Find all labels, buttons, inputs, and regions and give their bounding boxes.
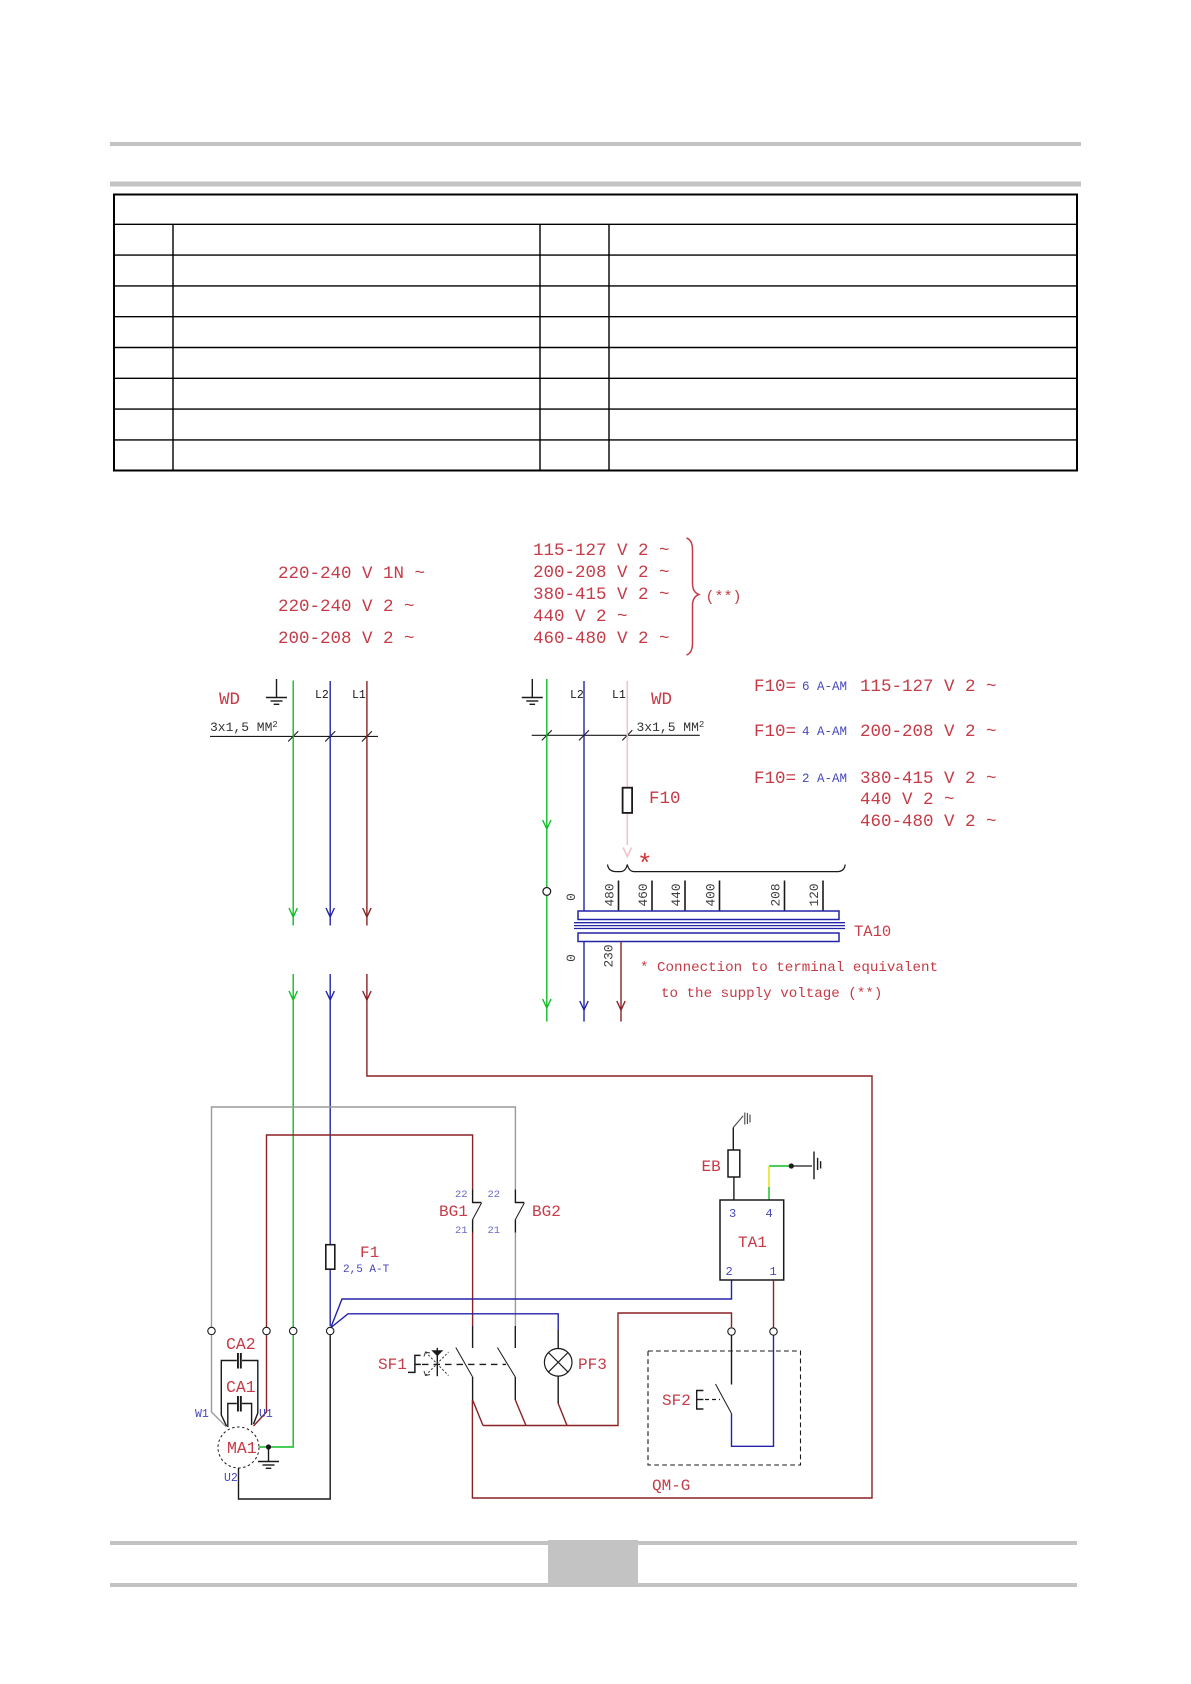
svg-text:L2: L2 xyxy=(315,689,329,702)
svg-text:MA1: MA1 xyxy=(227,1439,257,1458)
chassis ground symbol (rotated) xyxy=(814,1152,821,1180)
motor frame ground xyxy=(258,1447,279,1468)
svg-text:200-208 V 2 ~: 200-208 V 2 ~ xyxy=(860,722,997,742)
fuse F10 xyxy=(623,788,633,813)
svg-text:EB: EB xyxy=(702,1158,721,1176)
svg-text:PF3: PF3 xyxy=(578,1356,607,1374)
capacitor CA1 loop xyxy=(228,1404,252,1428)
terminal circles xyxy=(208,1327,777,1335)
svg-text:F10=: F10= xyxy=(754,677,796,697)
svg-text:3x1,5 MM2: 3x1,5 MM2 xyxy=(210,720,278,735)
svg-text:220-240 V 1N ~: 220-240 V 1N ~ xyxy=(278,564,425,584)
svg-text:21: 21 xyxy=(488,1225,501,1237)
svg-text:QM-G: QM-G xyxy=(652,1477,690,1495)
gray wire to motor W1 xyxy=(212,1335,227,1427)
svg-text:3: 3 xyxy=(729,1207,736,1221)
svg-text:3x1,5 MM2: 3x1,5 MM2 xyxy=(637,720,705,735)
cable line right group xyxy=(532,730,700,740)
svg-text:BG2: BG2 xyxy=(532,1203,561,1221)
lead to chassis ground right of TA1 xyxy=(791,1165,812,1167)
svg-text:460-480 V 2 ~: 460-480 V 2 ~ xyxy=(860,812,997,832)
SF1 selector symbol (crossed arrows) xyxy=(424,1348,449,1376)
svg-text:115-127 V 2 ~: 115-127 V 2 ~ xyxy=(860,677,997,697)
svg-text:208: 208 xyxy=(769,883,784,906)
voltage list right column xyxy=(533,541,670,649)
yellow-green earth wire at TA1 pin 4 xyxy=(769,1165,791,1167)
SF1 manual operator xyxy=(408,1355,421,1372)
transformer TA10 core xyxy=(574,923,845,929)
cable line left group xyxy=(210,731,378,741)
wire L2 blue left segment 1 xyxy=(326,681,334,926)
SF2 operator E xyxy=(697,1391,704,1410)
wire L1 pink through F10 xyxy=(623,681,631,857)
dark red wiring loop (to BG1 / U1) xyxy=(267,1135,473,1327)
svg-text:CA1: CA1 xyxy=(226,1378,256,1397)
svg-text:22: 22 xyxy=(455,1189,468,1201)
svg-text:120: 120 xyxy=(807,883,822,906)
secondary labels 0 and 230 xyxy=(564,944,617,967)
EB lead bottom to TA1 pin 3 xyxy=(733,1177,735,1200)
voltage list left column xyxy=(278,564,425,649)
SF1 linkage dashed line xyxy=(422,1363,506,1365)
ground (earth) symbol right group xyxy=(522,679,543,704)
wire L1 dark red left segment 2, turns right xyxy=(363,974,872,1498)
black return wire from terminal to U2 xyxy=(239,1335,331,1499)
svg-text:F10: F10 xyxy=(649,789,681,809)
svg-text:200-208 V 2 ~: 200-208 V 2 ~ xyxy=(533,563,670,583)
svg-text:220-240 V 2 ~: 220-240 V 2 ~ xyxy=(278,597,415,617)
transformer TA10 taps xyxy=(619,881,824,912)
svg-text:WD: WD xyxy=(651,690,672,710)
wire L2 blue right into transformer xyxy=(583,681,585,911)
blue rail 1 (to TA1 pin 2) xyxy=(331,1280,732,1327)
svg-text:1: 1 xyxy=(770,1265,777,1279)
contact BG1 xyxy=(473,1190,482,1327)
svg-text:TA1: TA1 xyxy=(738,1234,767,1252)
svg-text:2 A-AM: 2 A-AM xyxy=(802,772,847,786)
EB lead top xyxy=(732,1128,734,1151)
svg-text:230: 230 xyxy=(602,944,617,967)
svg-text:BG1: BG1 xyxy=(439,1203,468,1221)
svg-text:TA10: TA10 xyxy=(854,923,891,941)
SF1 contact left xyxy=(456,1326,483,1426)
contact BG2 xyxy=(515,1190,524,1327)
junction dot xyxy=(789,1163,794,1168)
dashed enclosure QM-G xyxy=(648,1351,801,1465)
dark red wire to motor U1 xyxy=(254,1335,267,1426)
svg-text:440: 440 xyxy=(669,883,684,906)
secondary 0 wire blue with arrow xyxy=(580,942,588,1022)
svg-text:4: 4 xyxy=(766,1207,773,1221)
svg-text:380-415 V 2 ~: 380-415 V 2 ~ xyxy=(860,769,997,789)
SF2 linkage dashes xyxy=(705,1399,720,1401)
wire PE green right (long) with arrows and node circle xyxy=(543,679,551,1022)
svg-text:2: 2 xyxy=(726,1265,733,1279)
svg-text:F10=: F10= xyxy=(754,722,796,742)
svg-text:460: 460 xyxy=(636,883,651,906)
svg-text:21: 21 xyxy=(455,1225,468,1237)
svg-text:L1: L1 xyxy=(352,689,366,702)
TA1 pin numbers xyxy=(726,1207,777,1279)
SF1 contact right xyxy=(497,1326,526,1426)
transformer TA1 box xyxy=(720,1200,784,1280)
svg-text:L1: L1 xyxy=(612,689,626,702)
junction dot on green xyxy=(266,1444,271,1449)
lamp PF3 xyxy=(544,1349,572,1377)
ground (earth) symbol left group xyxy=(266,679,287,704)
antenna / mains marker above EB xyxy=(733,1113,750,1128)
component EB xyxy=(728,1150,740,1177)
green wire to motor frame xyxy=(260,1335,294,1447)
svg-text:SF1: SF1 xyxy=(378,1356,407,1374)
svg-text:W1: W1 xyxy=(195,1408,209,1421)
svg-text:6 A-AM: 6 A-AM xyxy=(802,680,847,694)
transformer TA10 secondary winding xyxy=(578,933,839,942)
svg-text:WD: WD xyxy=(219,690,240,710)
SF2 contact xyxy=(716,1336,774,1447)
svg-text:440 V 2 ~: 440 V 2 ~ xyxy=(860,790,955,810)
secondary 230 wire dark red with arrow xyxy=(617,942,625,1022)
fuse F1 xyxy=(326,1245,335,1270)
motor MA1 dashed circle xyxy=(218,1427,259,1468)
tap labels rotated xyxy=(564,883,822,906)
PF3 bottom lead xyxy=(558,1376,567,1425)
svg-text:U1: U1 xyxy=(259,1408,273,1421)
capacitor CA2 loop xyxy=(221,1361,257,1427)
svg-text:(**): (**) xyxy=(706,589,742,606)
PF3 top lead xyxy=(557,1330,559,1349)
svg-text:200-208 V 2 ~: 200-208 V 2 ~ xyxy=(278,629,415,649)
dark red bus to TA1 terminal xyxy=(483,1313,732,1426)
svg-text:115-127 V 2 ~: 115-127 V 2 ~ xyxy=(533,541,670,561)
svg-text:2,5 A-T: 2,5 A-T xyxy=(343,1264,390,1276)
wire L2 blue left segment 2 with arrow (to F1) xyxy=(326,974,334,1326)
svg-text:380-415 V 2 ~: 380-415 V 2 ~ xyxy=(533,585,670,605)
svg-text:F10=: F10= xyxy=(754,769,796,789)
svg-text:4 A-AM: 4 A-AM xyxy=(802,725,847,739)
brace for (**) group xyxy=(687,538,699,655)
terminal circle on green PE xyxy=(543,888,551,896)
svg-text:to the supply voltage (**): to the supply voltage (**) xyxy=(661,986,882,1002)
tap selector brace xyxy=(608,865,846,872)
wire PE green left segment 2 with arrow xyxy=(289,974,297,1327)
svg-text:400: 400 xyxy=(704,883,719,906)
svg-text:440 V 2 ~: 440 V 2 ~ xyxy=(533,607,628,627)
svg-text:F1: F1 xyxy=(360,1244,379,1262)
svg-text:22: 22 xyxy=(488,1189,501,1201)
svg-text:0: 0 xyxy=(564,954,579,962)
TA1 pin 1 lead dark red xyxy=(773,1280,775,1328)
svg-text:U2: U2 xyxy=(224,1472,238,1485)
footnote xyxy=(640,960,938,1002)
wire L1 dark red left segment 1 xyxy=(363,681,371,926)
svg-text:SF2: SF2 xyxy=(662,1392,691,1410)
F10 fuse ratings (blue) xyxy=(802,680,847,786)
svg-text:L2: L2 xyxy=(570,689,584,702)
capacitor CA1 plates xyxy=(237,1396,239,1412)
transformer TA10 primary winding xyxy=(578,911,839,920)
capacitor CA2 plates xyxy=(237,1353,239,1369)
svg-text:CA2: CA2 xyxy=(226,1335,256,1354)
svg-text:460-480 V 2 ~: 460-480 V 2 ~ xyxy=(533,629,670,649)
blue rail 2 (to PF3) xyxy=(331,1314,558,1330)
svg-text:*: * xyxy=(637,850,653,880)
svg-text:0: 0 xyxy=(564,893,579,901)
wire PE green left segment 1 xyxy=(289,681,297,926)
svg-text:480: 480 xyxy=(603,883,618,906)
svg-text:* Connection to terminal equiv: * Connection to terminal equivalent xyxy=(640,960,938,976)
gray wiring loop (to BG2 / W1) xyxy=(212,1107,516,1327)
F10 fuse value table xyxy=(754,677,997,832)
